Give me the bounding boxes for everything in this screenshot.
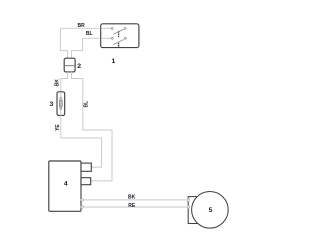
contact MR of switch 1 — [124, 37, 126, 39]
svg-text:RE: RE — [128, 203, 136, 209]
switch box 1 — [101, 24, 139, 48]
svg-text:4: 4 — [64, 180, 68, 187]
terminal at harness 4 (RE) — [81, 206, 83, 208]
terminal at motor 5 (RE) — [187, 206, 189, 208]
terminal at motor 5 (BK) — [187, 199, 189, 201]
wire BK: connector 2 to fuse 3 — [61, 72, 68, 92]
wire RE: harness 4 to motor 5 — [82, 206, 188, 208]
contact TR of switch 1 — [124, 27, 126, 29]
fuse 3 top terminal — [60, 98, 62, 100]
wire BR: switch 1 to connector 2 — [60, 28, 100, 58]
svg-text:1: 1 — [112, 58, 116, 65]
motor 5 — [192, 192, 229, 229]
svg-text:BL: BL — [84, 101, 90, 108]
switch blade 1 — [113, 29, 123, 34]
svg-text:5: 5 — [209, 207, 213, 214]
fuse 3 — [57, 92, 65, 116]
svg-text:BK: BK — [128, 195, 136, 201]
fuse 3 body — [59, 101, 62, 107]
svg-text:3: 3 — [50, 101, 54, 108]
svg-text:BR: BR — [78, 23, 86, 29]
motor 5 bracket — [188, 197, 198, 224]
wire BL: switch 1 to connector 2 — [72, 38, 101, 58]
dashed actuator link of switch 1 (lower) — [118, 43, 120, 48]
switch blade 2 — [114, 40, 125, 45]
wire BL: connector 2 to harness 4 lower tab — [72, 72, 113, 181]
svg-text:BK: BK — [55, 79, 61, 87]
wire: box1 internal lead to contact ML — [101, 37, 112, 39]
harness box 4 — [49, 161, 81, 211]
svg-text:2: 2 — [77, 63, 81, 70]
wire: box1 internal lead to contact TL — [101, 27, 112, 29]
connector 2 divider — [64, 65, 75, 67]
contact TL of switch 1 — [111, 27, 113, 29]
wire YE: fuse 3 to harness 4 upper tab — [61, 115, 102, 167]
fuse 3 internal lead — [60, 92, 62, 116]
svg-text:BL: BL — [86, 31, 93, 37]
connector 2 — [64, 58, 75, 72]
harness 4 upper tab — [81, 163, 91, 171]
fuse 3 bottom terminal — [60, 107, 62, 109]
svg-text:YE: YE — [55, 124, 61, 131]
harness 4 lower tab — [81, 178, 91, 185]
contact ML of switch 1 — [111, 37, 113, 39]
dashed actuator link of switch 1 (upper) — [118, 31, 120, 37]
terminal at harness 4 (BK) — [81, 199, 83, 201]
wire BK: harness 4 to motor 5 — [82, 199, 188, 201]
